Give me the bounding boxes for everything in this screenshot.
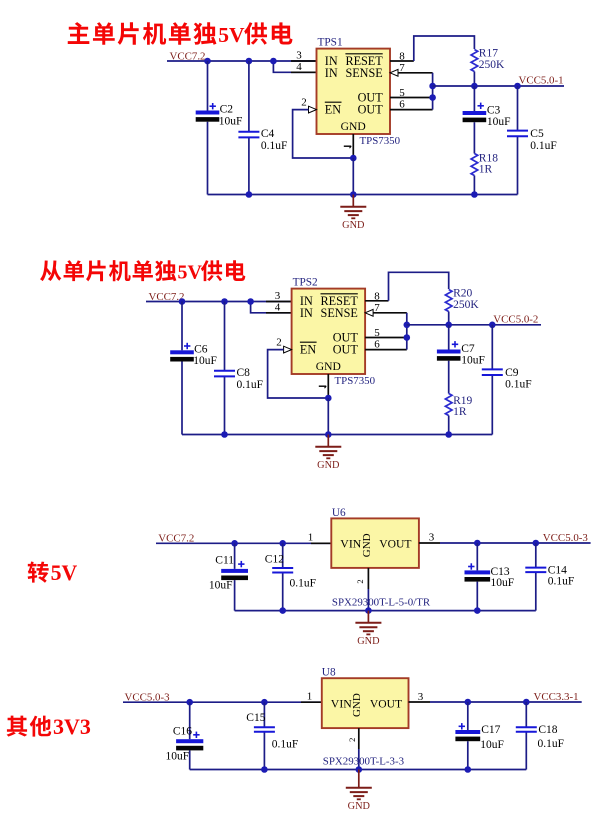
junction gnd stem (sec1) [350,191,357,198]
svg-text:250K: 250K [479,59,505,71]
wire R17 bottom [473,72,475,87]
svg-text:VCC5.0-3: VCC5.0-3 [543,532,589,544]
svg-text:C11: C11 [215,555,234,567]
svg-text:C2: C2 [220,104,234,116]
junction at C6 top [179,298,186,305]
wire output rail VCC3.3-1 [430,701,582,703]
wire pin4 branch (sec1) [273,61,316,72]
svg-text:2: 2 [301,97,307,109]
capacitor C7 10uF (polarized) [437,341,461,361]
wire VCC7.2 rail (sec2) [146,301,292,303]
wire VCC7.2 rail (sec1) [167,60,317,62]
svg-text:C18: C18 [538,724,557,736]
svg-text:0.1uF: 0.1uF [237,379,264,391]
svg-text:10uF: 10uF [193,355,217,367]
svg-text:VIN: VIN [340,536,361,550]
wire bottom rail (sec2) [182,434,492,436]
input triangle pin2 (TPS2) [284,346,292,353]
svg-text:C3: C3 [487,104,501,116]
svg-text:TPS2: TPS2 [293,277,318,289]
svg-text:3: 3 [429,531,435,543]
wire pin8 to R20 top [389,272,449,301]
wire C9 vertical [491,325,493,370]
svg-text:4: 4 [275,301,281,313]
junction C17 bottom [465,766,472,773]
svg-text:10uF: 10uF [491,577,515,589]
junction at C4 top [246,58,253,65]
capacitor C13 10uF (polarized) [465,563,491,581]
svg-text:IN: IN [300,306,313,320]
svg-text:R17: R17 [479,48,498,60]
pin stub 5 (TPS2) [365,337,407,339]
svg-text:GND: GND [317,460,340,471]
pin stub 3 (U6) + wire [419,542,440,544]
wire GND node down [352,158,354,195]
ground symbol GND (sec1) [340,195,366,232]
wire C8 vertical [224,302,226,371]
svg-text:3: 3 [275,290,281,302]
wire sense vertical (sec2) [406,313,408,350]
svg-text:U8: U8 [322,666,336,678]
svg-text:10uF: 10uF [209,579,233,591]
svg-text:C5: C5 [530,128,544,140]
junction C13 bottom [474,607,481,614]
wire pin4 branch (sec2) [251,302,292,313]
pin number 1 (rotated, GND pin) [344,145,351,147]
wire GND node down (sec2) [327,398,329,435]
junction C8 bottom [221,431,228,438]
pin stub 7 + wire (TPS2) [373,312,407,314]
wire R20 bottom [448,312,450,325]
wire output rail VCC5.0-3 [440,542,591,544]
pin stub 4 (TPS2) [266,312,292,314]
wire C13 vertical [476,543,478,570]
svg-text:10uF: 10uF [480,739,504,751]
junction R20/rail [445,322,452,329]
wire C14 vertical [535,543,537,568]
capacitor C6 10uF (polarized) [170,343,194,362]
regulator U8 body [322,678,409,728]
svg-text:SPX29300T-L-3-3: SPX29300T-L-3-3 [323,755,405,767]
junction sense/rail [429,83,436,90]
junction at C2 top [204,58,211,65]
input triangle pin2 [309,106,317,113]
pin stub 3 (TPS2) [266,301,292,303]
title section2 从单片机单独5V供电 [40,260,245,284]
wire sense vertical (sec1) [432,73,434,110]
ground symbol GND (sec3) [355,611,381,648]
wire C4 vertical (sec1) [248,61,250,132]
wire bottom rail (sec3) [235,610,536,612]
svg-text:0.1uF: 0.1uF [505,379,532,391]
resistor R18 1R [471,154,478,176]
wire VCC7.2 rail (sec3) [156,542,331,544]
svg-text:1: 1 [307,691,313,703]
capacitor C14 0.1uF [525,568,546,573]
junction C12 top [279,540,286,547]
capacitor C9 0.1uF [482,369,503,375]
svg-text:VCC5.0-1: VCC5.0-1 [519,75,564,87]
svg-text:C15: C15 [246,712,265,724]
junction gnd stem (sec2) [325,431,332,438]
resistor R20 250K [445,290,452,312]
capacitor C2 10uF (polarized) [196,103,220,122]
svg-text:U6: U6 [332,507,346,519]
junction U8 gnd bottom [356,766,363,773]
junction C15 bottom [261,766,268,773]
junction U6 gnd bottom [365,607,372,614]
svg-text:GND: GND [348,801,371,812]
svg-text:C7: C7 [461,343,475,355]
wire C18 vertical [525,702,527,727]
svg-text:3: 3 [418,691,424,703]
wire C12 vertical [282,543,284,568]
pin stub 2 (U6 bottom) [367,568,369,589]
junction sense/pin5 [429,94,436,101]
svg-text:5V: 5V [178,262,203,284]
pin stub 1 (U6) [311,542,331,544]
svg-text:250K: 250K [453,299,479,311]
capacitor C4 0.1uF [238,132,259,138]
svg-text:TPS1: TPS1 [318,37,343,49]
svg-text:GND: GND [351,693,363,717]
junction C9 branch [489,322,496,329]
pin stub 2 (U8 bottom) [358,728,360,749]
op-amp regulator U TPS1 body [317,49,391,134]
svg-text:C17: C17 [481,724,500,736]
wire C17 vertical [467,702,469,730]
wire U8 gnd down [358,749,360,770]
pin stub 4 (TPS1) [291,71,317,73]
junction R19 bottom [445,431,452,438]
svg-text:GND: GND [341,120,366,133]
pin stub 3 (U8) + wire [409,701,431,703]
title section1 主单片机单独5V供电 [68,22,293,47]
wire R18 bottom [473,176,475,195]
svg-text:GND: GND [361,533,373,557]
pin stub 5 [390,97,433,99]
svg-text:VCC3.3-1: VCC3.3-1 [534,691,579,703]
resistor R19 1R [445,394,452,416]
svg-text:R19: R19 [453,395,472,407]
svg-text:VIN: VIN [331,696,352,710]
wire EN loop (sec2) [268,350,329,398]
junction C18 top [523,699,530,706]
svg-text:C13: C13 [491,566,510,578]
wire C5 vertical [517,86,519,131]
wire C3 vertical [473,86,475,111]
pin stub 6 [390,109,433,111]
svg-text:OUT: OUT [333,343,359,357]
junction EN/GND node [350,155,357,162]
svg-text:2: 2 [276,337,282,349]
wire C11 vertical [234,543,236,569]
pin stub 6 (TPS2) [365,349,407,351]
wire U6 gnd down [367,589,369,611]
junction EN/GND node (sec2) [325,395,332,402]
junction sense/rail (sec2) [404,322,411,329]
input triangle pin7 [390,69,398,76]
wire bottom rail (sec4) [190,769,527,771]
svg-text:TPS7350: TPS7350 [360,135,401,147]
wire output rail VCC5.0-2 [407,324,541,326]
svg-text:5V: 5V [51,561,78,585]
svg-text:1R: 1R [479,163,493,175]
svg-text:2: 2 [355,579,365,583]
wire bottom rail (sec1) [208,194,518,196]
wire C16 vertical [189,702,191,739]
resistor R17 250K [471,50,478,72]
junction pin4 branch (sec2) [247,298,254,305]
svg-text:10uF: 10uF [219,115,243,127]
svg-text:EN: EN [325,103,341,117]
pin stub GND (TPS2) [327,374,329,398]
capacitor C18 0.1uF [516,727,537,732]
svg-text:2: 2 [347,738,357,742]
junction C17 top [465,699,472,706]
junction C12 bottom [279,607,286,614]
svg-text:0.1uF: 0.1uF [548,576,575,588]
svg-text:C16: C16 [173,725,192,737]
junction C11 top [231,540,238,547]
junction R17/rail [471,83,478,90]
svg-text:SENSE: SENSE [345,66,382,80]
capacitor C11 10uF (polarized) [221,561,248,580]
svg-text:1R: 1R [453,406,467,418]
junction sense/pin5 (sec2) [404,334,411,341]
title section3 转5V [28,561,78,585]
svg-text:3V3: 3V3 [53,714,91,739]
pin stub 8 (TPS2) [365,300,388,302]
svg-text:10uF: 10uF [166,750,190,762]
junction C14 top [533,540,540,547]
svg-text:C14: C14 [548,564,567,576]
svg-text:0.1uF: 0.1uF [261,140,288,152]
svg-text:C6: C6 [194,343,208,355]
junction C16 top [186,699,193,706]
svg-text:VOUT: VOUT [379,537,411,550]
pin stub 1 (U8) [301,701,322,703]
svg-text:SPX29300T-L-5-0/TR: SPX29300T-L-5-0/TR [332,596,431,608]
wire R19 bottom [448,416,450,435]
junction R18 bottom [471,191,478,198]
svg-text:TPS7350: TPS7350 [335,375,376,387]
pin stub 8 (TPS1) [390,60,414,62]
svg-text:C8: C8 [237,367,251,379]
wire pin8 to R17 top [414,36,475,61]
svg-text:IN: IN [325,66,338,80]
svg-text:1: 1 [308,531,314,543]
wire C2 vertical (sec1) [207,61,209,111]
svg-text:SENSE: SENSE [321,306,358,320]
svg-text:10uF: 10uF [487,116,511,128]
ground symbol GND (sec4) [346,770,372,813]
capacitor C17 10uF (polarized) [455,723,480,741]
pin stub 3 (TPS1) [291,60,317,62]
ground symbol GND (sec2) [315,435,341,472]
svg-text:C4: C4 [261,128,275,140]
capacitor C16 10uF (polarized) [176,732,203,751]
title section4 其他3V3 [7,714,91,739]
svg-text:0.1uF: 0.1uF [290,578,317,590]
junction C13 top [474,540,481,547]
capacitor C3 10uF (polarized) [463,103,487,123]
junction at C8 top [221,298,228,305]
svg-text:OUT: OUT [358,103,384,117]
svg-text:GND: GND [316,360,341,373]
svg-text:5V: 5V [218,23,245,47]
junction pin4 branch [270,58,277,65]
svg-text:R20: R20 [453,288,472,300]
wire EN loop (sec1) [293,110,354,158]
svg-text:C12: C12 [265,554,284,566]
pin number 1 (rotated, TPS2 GND pin) [319,385,326,387]
svg-text:10uF: 10uF [461,354,485,366]
capacitor C12 0.1uF [272,568,293,573]
regulator U6 body [331,518,419,568]
svg-text:VOUT: VOUT [370,697,402,710]
regulator TPS2 body [292,289,366,374]
svg-text:VCC5.0-2: VCC5.0-2 [493,314,538,326]
svg-text:GND: GND [357,636,380,647]
svg-text:0.1uF: 0.1uF [538,738,565,750]
junction C4 bottom [246,191,253,198]
input triangle pin7 (TPS2) [365,309,373,316]
capacitor C8 0.1uF [214,371,235,377]
svg-text:3: 3 [296,49,302,61]
svg-text:0.1uF: 0.1uF [272,739,299,751]
wire C7 vertical [448,325,450,350]
junction C15 top [261,699,268,706]
wire VCC5.0-3 rail (sec4) [123,701,322,703]
svg-text:C9: C9 [505,367,519,379]
svg-text:4: 4 [296,61,302,73]
pin stub GND (TPS1) [352,134,354,158]
capacitor C5 0.1uF [507,131,528,137]
pin stub 7 + wire to sense vertical [398,72,433,74]
wire C15 vertical [263,702,265,727]
wire C6 vertical [181,302,183,351]
svg-text:0.1uF: 0.1uF [530,140,557,152]
capacitor C15 0.1uF [254,727,275,732]
junction C5 branch [514,83,521,90]
wire output rail VCC5.0-1 (sec1) [433,85,564,87]
svg-text:GND: GND [342,220,365,231]
svg-text:EN: EN [300,343,316,357]
